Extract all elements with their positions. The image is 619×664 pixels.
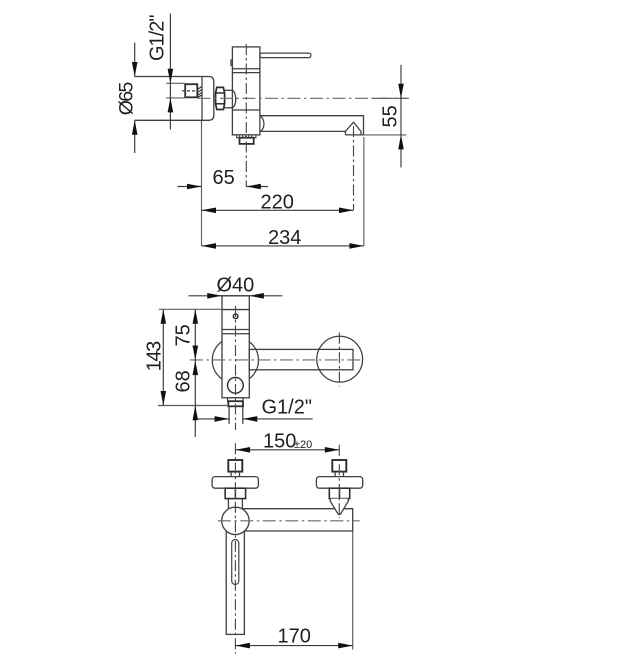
- svg-text:150: 150: [263, 431, 296, 453]
- svg-text:65: 65: [213, 167, 235, 189]
- svg-text:68: 68: [173, 370, 195, 392]
- svg-text:55: 55: [380, 105, 402, 127]
- svg-text:143: 143: [144, 341, 166, 372]
- svg-text:G1/2": G1/2": [262, 397, 312, 419]
- svg-text:Ø40: Ø40: [217, 275, 255, 297]
- svg-text:220: 220: [261, 192, 294, 214]
- svg-text:±20: ±20: [294, 439, 312, 451]
- svg-text:234: 234: [268, 227, 301, 249]
- svg-text:Ø65: Ø65: [116, 82, 138, 116]
- svg-text:170: 170: [278, 626, 311, 648]
- svg-text:75: 75: [173, 324, 195, 346]
- svg-text:G1/2": G1/2": [147, 15, 169, 62]
